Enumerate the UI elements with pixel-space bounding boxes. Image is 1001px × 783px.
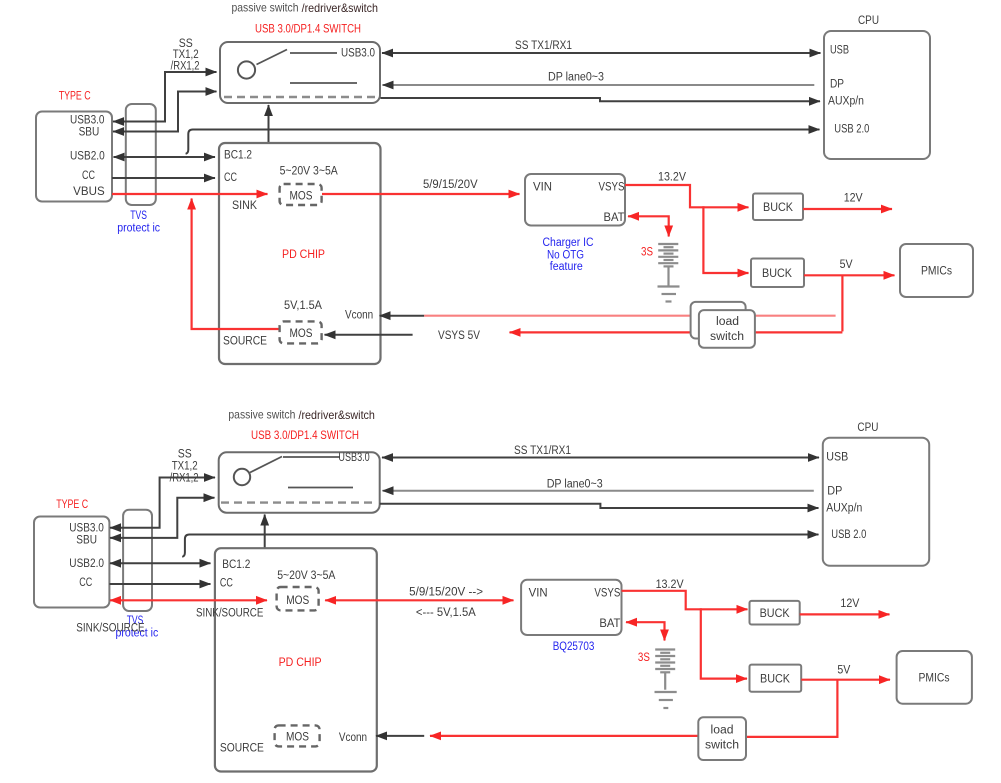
wire: AUX switch to CPU AUXp/n (bottom)	[380, 504, 819, 508]
svg-text:BAT: BAT	[599, 618, 620, 630]
wire: CC to PD chip (top)	[112, 177, 215, 179]
wire: TYPEC USB3.0 to switch (top)	[113, 72, 217, 122]
PD chip U2 box (top)	[219, 143, 381, 364]
svg-text:VSYS 5V: VSYS 5V	[438, 330, 480, 342]
node label: SS TX1,2 /RX1,2 (bottom)	[170, 449, 199, 485]
svg-text:5V: 5V	[837, 665, 850, 677]
svg-text:SOURCE: SOURCE	[223, 336, 267, 348]
load switch box (bottom)	[698, 717, 746, 760]
svg-text:DP: DP	[827, 485, 842, 497]
svg-text:VIN: VIN	[529, 588, 548, 600]
svg-text:BQ25703: BQ25703	[553, 641, 595, 653]
svg-text:<--- 5V,1.5A: <--- 5V,1.5A	[416, 607, 476, 619]
wire: SS TX1/RX1 switch to CPU USB (bottom)	[382, 457, 819, 459]
svg-text:3S: 3S	[638, 652, 650, 664]
wire: TYPEC SBU to switch (top)	[113, 92, 217, 132]
wire: TYPEC USB3.0 to switch (bottom)	[110, 478, 215, 528]
svg-text:13.2V: 13.2V	[658, 172, 686, 184]
svg-text:SS: SS	[178, 449, 192, 461]
svg-text:BC1.2: BC1.2	[224, 150, 252, 162]
svg-text:USB2.0: USB2.0	[70, 150, 105, 162]
wire: SOURCE MOS loop to VBUS (top)	[192, 199, 279, 330]
wire: branch to BUCK2 (bottom)	[701, 608, 747, 678]
label: Charger IC No OTG feature (top)	[543, 237, 594, 273]
MOS Q1 dashed box (top)	[280, 184, 322, 205]
MOS Q2 dashed box (top)	[280, 321, 322, 343]
wire: branch to BUCK2 (top)	[703, 206, 748, 273]
svg-text:USB: USB	[830, 45, 849, 57]
svg-text:VSYS: VSYS	[599, 182, 625, 194]
BUCK U10 box (bottom)	[750, 665, 802, 692]
svg-text:switch: switch	[710, 331, 744, 343]
svg-text:USB 3.0/DP1.4 SWITCH: USB 3.0/DP1.4 SWITCH	[251, 428, 359, 442]
ground (bottom)	[655, 692, 677, 708]
ground (top)	[658, 287, 680, 302]
svg-text:PD CHIP: PD CHIP	[279, 657, 322, 669]
wire: 5V to PMICs (top)	[804, 274, 895, 276]
wire: VSYS 5V gray arrow into MOS (top)	[325, 334, 413, 336]
svg-text:5~20V 3~5A: 5~20V 3~5A	[277, 570, 335, 582]
svg-text:CC: CC	[79, 577, 92, 589]
svg-text:USB3.0: USB3.0	[338, 452, 369, 464]
svg-text:SOURCE: SOURCE	[220, 743, 264, 755]
BUCK U4 box (top)	[753, 194, 803, 221]
wire: AUX switch to CPU AUXp/n (top)	[381, 98, 821, 101]
wire: TYPEC SBU to switch (bottom)	[110, 498, 215, 538]
svg-text:USB2.0: USB2.0	[69, 558, 104, 570]
svg-text:PMICs: PMICs	[921, 266, 952, 278]
svg-text:CC: CC	[220, 578, 233, 590]
svg-text:BC1.2: BC1.2	[222, 559, 250, 571]
svg-text:DP lane0~3: DP lane0~3	[547, 479, 603, 491]
wire: USB2 hook to CPU USB 2.0 (bottom)	[182, 535, 818, 557]
connector J2: TYPE C box (bottom)	[34, 499, 109, 608]
wire: PD chip to switch up arrow (bottom)	[264, 515, 266, 549]
BUCK U5 box (top)	[751, 259, 804, 288]
svg-text:SBU: SBU	[76, 535, 97, 547]
svg-text:CPU: CPU	[858, 15, 879, 27]
svg-text:TVS: TVS	[130, 210, 147, 222]
svg-text:Vconn: Vconn	[345, 309, 373, 321]
svg-text:DP lane0~3: DP lane0~3	[548, 72, 604, 84]
svg-text:MOS: MOS	[286, 595, 309, 607]
BUCK U9 box (bottom)	[750, 601, 800, 625]
wire: Vconn feed line salmon (top)	[424, 315, 835, 317]
connector J1: TYPE C box (top)	[36, 91, 112, 202]
wire: Vconn gray arrow (bottom)	[376, 735, 424, 737]
svg-text:passive switch: passive switch	[232, 1, 299, 15]
svg-text:feature: feature	[550, 261, 583, 273]
svg-text:SINK/SOURCE: SINK/SOURCE	[196, 607, 264, 619]
battery BT1 3S (top)	[658, 244, 678, 286]
svg-text:TYPE C: TYPE C	[59, 91, 91, 103]
svg-text:VSYS: VSYS	[594, 588, 620, 600]
wire: Vconn gray arrow (top)	[380, 315, 425, 317]
wire: PD chip to switch up arrow (top)	[268, 105, 270, 143]
svg-text:USB 2.0: USB 2.0	[831, 529, 866, 541]
svg-text:SS TX1/RX1: SS TX1/RX1	[515, 40, 572, 52]
svg-text:load: load	[711, 725, 734, 737]
node label: SS TX1,2 /RX1,2 (top)	[171, 38, 200, 73]
svg-text:BUCK: BUCK	[760, 608, 790, 620]
svg-text:USB3.0: USB3.0	[70, 115, 105, 127]
svg-text:protect ic: protect ic	[117, 223, 160, 235]
svg-text:5/9/15/20V -->: 5/9/15/20V -->	[409, 586, 483, 598]
wire: DP lane0~3 switch to CPU DP (top)	[383, 84, 815, 86]
svg-text:CC: CC	[224, 172, 237, 184]
wire: USB2.0 to BC1.2 (top)	[114, 156, 216, 158]
load switch boxes (top)	[691, 302, 755, 348]
Charger IC U3 box (top)	[525, 174, 625, 226]
svg-text:BUCK: BUCK	[763, 202, 793, 214]
wire: Vconn red from load switch (bottom)	[430, 735, 698, 737]
svg-text:AUXp/n: AUXp/n	[828, 95, 864, 107]
svg-text:BUCK: BUCK	[760, 674, 790, 686]
svg-text:5V,1.5A: 5V,1.5A	[284, 300, 322, 312]
svg-text:MOS: MOS	[290, 328, 313, 340]
MOS Q3 dashed box (bottom)	[277, 587, 319, 610]
wire: BAT to battery (top)	[628, 216, 669, 236]
wire: USB2.0 to BC1.2 (bottom)	[110, 562, 211, 564]
wire: VBUS red to MOS (top)	[112, 193, 268, 195]
PD chip U7 box (bottom)	[196, 548, 377, 771]
svg-text:SBU: SBU	[79, 126, 100, 138]
svg-text:MOS: MOS	[286, 731, 309, 743]
svg-text:CC: CC	[82, 170, 95, 182]
MOS Q4 dashed box (bottom)	[275, 725, 320, 746]
svg-text:SS TX1/RX1: SS TX1/RX1	[514, 445, 571, 457]
CPU box (bottom)	[823, 422, 929, 566]
svg-text:passive switch: passive switch	[228, 408, 295, 422]
wire: BAT to battery (bottom)	[626, 622, 665, 640]
PMICs box (top)	[900, 244, 973, 297]
svg-text:5/9/15/20V: 5/9/15/20V	[423, 179, 478, 191]
svg-text:USB 3.0/DP1.4 SWITCH: USB 3.0/DP1.4 SWITCH	[255, 21, 361, 35]
svg-text:/RX1,2: /RX1,2	[171, 61, 200, 73]
svg-text:USB3.0: USB3.0	[341, 48, 375, 60]
TVS protect ic box (top)	[117, 104, 160, 235]
svg-text:switch: switch	[705, 740, 739, 752]
PMICs box (bottom)	[897, 651, 972, 704]
svg-text:USB: USB	[826, 451, 848, 463]
svg-text:12V: 12V	[840, 598, 859, 610]
svg-text:/redriver&switch: /redriver&switch	[299, 408, 375, 422]
svg-text:BAT: BAT	[604, 212, 625, 224]
wire: MOS to VIN bidirectional (bottom)	[325, 599, 513, 601]
svg-text:13.2V: 13.2V	[656, 579, 684, 591]
wire: CC to PD chip (bottom)	[109, 583, 210, 585]
svg-text:Vconn: Vconn	[339, 732, 367, 744]
svg-text:PD CHIP: PD CHIP	[282, 249, 325, 261]
svg-text:12V: 12V	[844, 193, 863, 205]
wire: USB2 hook to CPU USB 2.0 (top)	[186, 130, 820, 154]
CPU box (top)	[824, 15, 930, 159]
svg-text:load: load	[716, 316, 739, 328]
wire: 12V out (top)	[803, 208, 892, 210]
label: passive switch /redriver&switch (bottom)	[228, 408, 375, 423]
svg-text:No OTG: No OTG	[547, 250, 584, 262]
svg-text:DP: DP	[830, 79, 844, 91]
battery BT2 3S (bottom)	[655, 650, 675, 690]
TVS protect ic box (bottom)	[116, 510, 159, 640]
svg-text:/redriver&switch: /redriver&switch	[302, 1, 378, 15]
svg-text:Charger IC: Charger IC	[543, 237, 594, 249]
svg-text:USB 2.0: USB 2.0	[834, 124, 869, 136]
switch U6 (bottom): passive switch box	[219, 452, 380, 513]
svg-text:CPU: CPU	[857, 422, 878, 434]
svg-text:TX1,2: TX1,2	[173, 49, 199, 61]
wire: 5V drop to load switch (top)	[841, 275, 843, 331]
svg-text:AUXp/n: AUXp/n	[826, 502, 862, 514]
wire: 5V to PMICs (bottom)	[801, 679, 890, 681]
svg-text:SS: SS	[179, 38, 193, 50]
wire: VBUS red bidirectional to MOS (bottom)	[110, 599, 267, 601]
wire: 12V out (bottom)	[800, 613, 890, 615]
svg-text:5~20V 3~5A: 5~20V 3~5A	[280, 165, 338, 177]
svg-text:5V: 5V	[840, 259, 853, 271]
wire: SS TX1/RX1 switch to CPU USB (top)	[382, 52, 821, 54]
wire: 5V drop to load switch (bottom)	[747, 680, 837, 737]
svg-text:SINK: SINK	[232, 200, 257, 212]
wire: MOS out 5/9/15/20V to VIN (top)	[322, 193, 520, 195]
Charger IC U8 BQ25703 box (bottom)	[521, 580, 621, 635]
wire: VSYS 13.2V to BUCK1 (bottom)	[622, 591, 748, 610]
wire: VSYS 13.2V to BUCK1 (top)	[625, 185, 749, 207]
svg-text:TYPE C: TYPE C	[56, 499, 88, 511]
svg-text:TX1,2: TX1,2	[172, 461, 198, 473]
svg-text:SINK/SOURCE: SINK/SOURCE	[76, 623, 145, 635]
svg-text:VBUS: VBUS	[73, 186, 105, 198]
wire: VSYS 5V red from load switch (top)	[510, 331, 843, 333]
wire: DP lane0~3 (bottom)	[383, 490, 814, 492]
switch U1 (top): passive switch box	[220, 42, 380, 103]
svg-text:3S: 3S	[641, 247, 653, 259]
svg-text:BUCK: BUCK	[762, 268, 792, 280]
label: passive switch /redriver&switch (top)	[232, 1, 379, 16]
svg-text:MOS: MOS	[290, 191, 313, 203]
svg-text:VIN: VIN	[533, 182, 552, 194]
svg-text:PMICs: PMICs	[919, 673, 950, 685]
svg-text:USB3.0: USB3.0	[69, 523, 104, 535]
